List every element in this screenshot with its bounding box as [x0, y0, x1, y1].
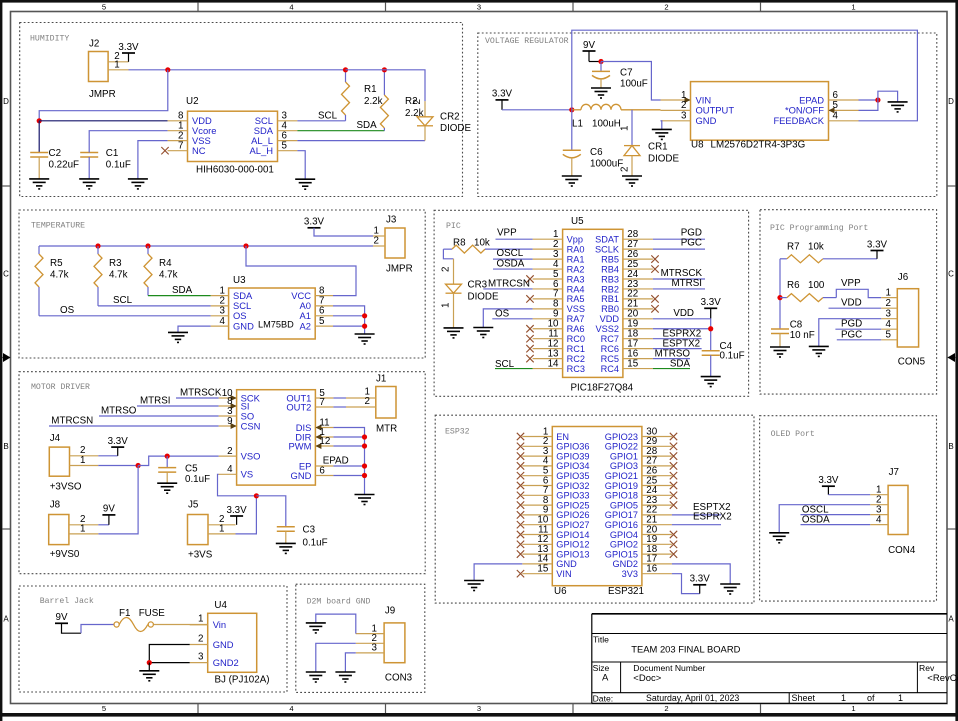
svg-text:D: D [948, 97, 954, 106]
wire U4 GND2 [149, 662, 189, 664]
wire junction to ground [878, 91, 898, 102]
svg-text:SCL: SCL [318, 111, 338, 122]
wire 3.3V to J3.1 [314, 228, 373, 236]
no-connect [670, 433, 677, 440]
svg-text:2: 2 [198, 633, 203, 644]
resistor R6 100 [780, 294, 836, 302]
wire J4.1 to J8.1 [98, 466, 138, 534]
svg-text:GPIO25: GPIO25 [556, 500, 589, 510]
svg-text:F1: F1 [119, 608, 130, 619]
svg-text:GPIO34: GPIO34 [556, 461, 589, 471]
ground under C5 [157, 483, 177, 493]
svg-text:3.3V: 3.3V [227, 505, 248, 516]
svg-text:3: 3 [198, 651, 204, 662]
svg-text:*ON/OFF: *ON/OFF [785, 105, 824, 116]
wire 3.3V rail temperature [39, 245, 373, 247]
svg-text:GPIO36: GPIO36 [556, 442, 589, 452]
svg-text:3: 3 [477, 2, 481, 11]
wire MTRSI [137, 405, 219, 407]
svg-text:GPIO26: GPIO26 [556, 510, 589, 520]
wire 9V stem barrel [62, 623, 82, 633]
svg-text:MTR: MTR [376, 424, 397, 435]
wire J4.2 [98, 455, 117, 457]
ground under U2 VSS [128, 179, 148, 189]
svg-text:2: 2 [664, 704, 668, 713]
junction [362, 463, 367, 468]
svg-text:MTRSI: MTRSI [140, 395, 170, 406]
wire MTRSO [99, 415, 219, 417]
connector J4 +3VSO [49, 447, 98, 476]
svg-text:3.3V: 3.3V [108, 436, 129, 447]
inductor L1 100uH [572, 104, 661, 109]
wire VPP to J6.1 [836, 289, 881, 297]
svg-text:4.7k: 4.7k [109, 270, 128, 281]
svg-text:C2: C2 [49, 148, 62, 159]
svg-text:PGC: PGC [681, 238, 702, 249]
wire VSS to ground [138, 141, 168, 179]
svg-text:R8: R8 [453, 237, 466, 248]
svg-text:3: 3 [477, 704, 481, 713]
wire 3.3V stem ESP32 [699, 585, 701, 594]
wire ESPRX2 [653, 338, 702, 340]
capacitor C1 0.1uF [80, 153, 98, 179]
connector J8 +9VS0 [49, 515, 99, 545]
svg-text:RB2: RB2 [601, 284, 619, 294]
svg-text:RC6: RC6 [601, 344, 619, 354]
svg-text:VDD: VDD [841, 298, 862, 309]
ground under C8 [770, 347, 790, 357]
svg-text:10 nF: 10 nF [790, 330, 815, 341]
wire J6.3 to ground [819, 319, 881, 347]
svg-text:VSS2: VSS2 [596, 324, 620, 334]
svg-text:GND: GND [556, 559, 577, 569]
wire 3.3V to J7.1 [828, 494, 870, 496]
svg-text:PIC18F27Q84: PIC18F27Q84 [571, 383, 634, 394]
svg-text:2: 2 [441, 267, 452, 272]
svg-text:TEAM 203 FINAL BOARD: TEAM 203 FINAL BOARD [631, 643, 740, 654]
ic U2 HIH6030-000-001 [168, 111, 298, 161]
wire ESPTX2 [672, 514, 721, 516]
svg-text:2: 2 [664, 2, 668, 11]
no-connect [670, 541, 677, 548]
wire 3.3V to U3 VCC [246, 246, 356, 296]
svg-text:A2: A2 [300, 320, 311, 331]
no-connect [670, 452, 677, 459]
svg-text:of: of [867, 693, 875, 703]
svg-text:J1: J1 [376, 374, 386, 385]
wire PGC [653, 248, 705, 250]
svg-text:HIH6030-000-001: HIH6030-000-001 [196, 165, 274, 176]
wire 3.3V stem J5 [236, 516, 238, 525]
svg-text:J2: J2 [89, 39, 99, 50]
svg-text:Date:: Date: [593, 693, 614, 703]
wire SCL [495, 368, 533, 370]
wire 3.3V stem J4 [117, 447, 119, 456]
wire VSS2 [653, 328, 711, 330]
no-connect [517, 462, 524, 469]
no-connect [670, 501, 677, 508]
wire R7 to C8 [779, 259, 781, 329]
junction [362, 434, 367, 439]
svg-text:6: 6 [833, 90, 839, 101]
ic motor driver [219, 390, 334, 485]
svg-text:5: 5 [102, 2, 106, 11]
wire A1 [333, 315, 365, 317]
svg-text:2: 2 [365, 396, 370, 407]
svg-text:15: 15 [627, 358, 638, 369]
svg-text:GPIO15: GPIO15 [605, 549, 638, 559]
no-connect [517, 452, 524, 459]
wire OSCL to J7.3 [801, 514, 871, 516]
ground under AL_H [295, 179, 315, 189]
wire U6 GND to ground [474, 564, 522, 581]
svg-text:CON3: CON3 [385, 673, 413, 684]
junction [145, 243, 150, 248]
no-connect [517, 433, 524, 440]
junction [708, 326, 713, 331]
svg-text:RA6: RA6 [567, 324, 585, 334]
svg-text:1: 1 [681, 90, 686, 101]
wire ESPTX2 [653, 348, 702, 350]
svg-text:CR1: CR1 [648, 142, 668, 153]
svg-text:MTRSO: MTRSO [101, 405, 137, 416]
ground under U5 VSS [473, 328, 493, 338]
frame column ticks bottom [197, 704, 199, 714]
svg-text:4: 4 [227, 464, 233, 475]
frame mid arrow left [3, 353, 11, 362]
junction [165, 454, 170, 459]
wire PGD [653, 238, 705, 240]
wire J5.1 up [236, 496, 257, 534]
ground under U6 GND [464, 581, 484, 591]
svg-text:VS: VS [241, 469, 254, 480]
svg-text:MTRCSN: MTRCSN [488, 278, 530, 289]
svg-text:J3: J3 [386, 215, 397, 226]
wire to ground barrel [148, 663, 150, 671]
ground under C3 [276, 543, 296, 553]
svg-text:3.3V: 3.3V [701, 297, 722, 308]
svg-text:0.1uF: 0.1uF [106, 160, 131, 171]
svg-text:3: 3 [372, 643, 378, 654]
svg-text:B: B [3, 442, 8, 451]
svg-text:3.3V: 3.3V [818, 475, 839, 486]
wire DIR [333, 436, 364, 438]
svg-text:RB4: RB4 [601, 264, 619, 274]
svg-text:VSS: VSS [567, 304, 585, 314]
svg-text:+3VS: +3VS [188, 549, 213, 560]
no-connect [526, 295, 533, 302]
ground under C6 [562, 176, 582, 186]
svg-text:OSDA: OSDA [802, 514, 830, 525]
wire OS [492, 318, 532, 320]
no-connect [670, 472, 677, 479]
svg-text:GPIO14: GPIO14 [556, 530, 589, 540]
svg-text:3: 3 [886, 309, 892, 320]
svg-text:RA3: RA3 [567, 274, 585, 284]
svg-text:Document Number: Document Number [633, 663, 705, 673]
svg-text:3.3V: 3.3V [492, 89, 513, 100]
wire VDD rail down to C4 [710, 318, 712, 350]
svg-text:7: 7 [319, 397, 324, 408]
svg-text:ESP321: ESP321 [608, 586, 644, 597]
svg-text:Vpp: Vpp [567, 235, 583, 245]
wire U8 GND to ground [661, 121, 662, 130]
svg-text:Vin: Vin [213, 619, 226, 630]
wire A0 down [333, 306, 365, 334]
wire OSDA [493, 268, 533, 270]
wire OSCL [493, 258, 533, 260]
wire to VSO [138, 456, 219, 465]
no-connect [517, 570, 524, 577]
wire MTRSCK [176, 397, 219, 399]
diode CR2 [417, 101, 433, 140]
wire J2.1 to R1 [129, 69, 346, 71]
svg-text:5: 5 [102, 704, 106, 713]
svg-text:RC3: RC3 [567, 364, 585, 374]
svg-text:2.2k: 2.2k [364, 96, 383, 107]
svg-text:Title: Title [593, 634, 609, 644]
svg-text:RA0: RA0 [567, 244, 585, 254]
wire OSDA to J7.4 [801, 524, 871, 526]
svg-text:1: 1 [898, 693, 903, 703]
wire 3.3V stem J7 [827, 486, 829, 495]
svg-text:GPIO17: GPIO17 [605, 510, 638, 520]
svg-text:6: 6 [319, 465, 325, 476]
junction [136, 463, 141, 468]
wire Vcore to C1 [89, 131, 167, 153]
ic U8 LM2576D2TR4-3P3G [661, 82, 859, 141]
no-connect [670, 531, 677, 538]
ground under U6 GND2 [720, 584, 740, 594]
wire EPAD to junction [859, 99, 878, 101]
svg-text:GPIO23: GPIO23 [605, 432, 638, 442]
svg-text:RB3: RB3 [601, 274, 619, 284]
svg-text:U3: U3 [233, 275, 246, 286]
no-connect [526, 275, 533, 282]
svg-text:10k: 10k [474, 237, 490, 248]
svg-text:GPIO22: GPIO22 [605, 442, 638, 452]
svg-text:GPIO1: GPIO1 [610, 451, 638, 461]
wire GND [333, 475, 364, 477]
connector J2 JMPR [89, 52, 129, 82]
no-connect [651, 305, 658, 312]
svg-text:GPIO32: GPIO32 [556, 481, 589, 491]
no-connect [517, 443, 524, 450]
no-connect [517, 531, 524, 538]
wire FEEDBACK loop to 3.3V node [572, 30, 918, 121]
no-connect [526, 325, 533, 332]
svg-text:Saturday, April 01, 2023: Saturday, April 01, 2023 [646, 693, 739, 703]
junction [875, 97, 880, 102]
svg-text:R7: R7 [787, 241, 800, 252]
no-connect [670, 492, 677, 499]
diode CR3 [446, 259, 462, 328]
svg-text:MOTOR DRIVER: MOTOR DRIVER [31, 383, 90, 392]
ground motor driver [355, 495, 375, 505]
wire VS down [218, 474, 257, 496]
junction [37, 118, 42, 123]
svg-text:4: 4 [289, 704, 293, 713]
svg-text:RC1: RC1 [567, 344, 585, 354]
svg-text:1: 1 [841, 693, 846, 703]
wire VDD to U2 pin 8 [39, 120, 167, 122]
svg-text:RA1: RA1 [567, 254, 585, 264]
wire MTRSCK [653, 278, 705, 280]
svg-text:NC: NC [192, 145, 206, 156]
frame row ticks left [2, 185, 10, 187]
svg-text:1: 1 [114, 59, 119, 70]
wire 9V to junction [589, 61, 601, 63]
svg-text:C7: C7 [620, 68, 633, 79]
wire VDD to J6.2 [829, 307, 882, 309]
svg-text:1: 1 [851, 704, 855, 713]
svg-text:ESPRX2: ESPRX2 [693, 512, 732, 523]
svg-text:Barrel Jack: Barrel Jack [40, 596, 94, 606]
svg-text:C6: C6 [590, 147, 603, 158]
wire to C2 [38, 121, 40, 153]
svg-text:100: 100 [808, 280, 825, 291]
power 3.3V [867, 239, 888, 250]
capacitor C3 0.1uF [277, 527, 295, 544]
power 3.3V [690, 574, 711, 585]
svg-text:MTRSCK: MTRSCK [180, 387, 222, 398]
no-connect [526, 345, 533, 352]
svg-text:<Doc>: <Doc> [633, 673, 661, 684]
svg-text:GND: GND [213, 639, 234, 650]
svg-text:SDA: SDA [172, 285, 193, 296]
wire J9.2 to ground [316, 643, 356, 672]
svg-text:J4: J4 [50, 433, 61, 444]
svg-text:PWM: PWM [288, 440, 311, 451]
ground under U3 GND [168, 332, 188, 342]
svg-text:<RevCo: <RevCo [927, 673, 958, 684]
svg-text:5: 5 [886, 330, 892, 341]
power 3.3V [304, 217, 325, 228]
svg-text:EPAD: EPAD [799, 94, 824, 105]
svg-text:GPIO33: GPIO33 [556, 491, 589, 501]
svg-text:1: 1 [886, 287, 891, 298]
svg-text:FEEDBACK: FEEDBACK [773, 115, 824, 126]
svg-text:C1: C1 [106, 148, 119, 159]
svg-text:DIODE: DIODE [440, 123, 471, 134]
svg-text:RC4: RC4 [601, 364, 619, 374]
wire U3 GND to ground [178, 326, 211, 332]
svg-text:OSDA: OSDA [497, 258, 525, 269]
connector J5 +3VS [188, 515, 236, 545]
wire J9.3 to ground [345, 653, 355, 672]
svg-text:A: A [602, 673, 609, 684]
svg-text:CON5: CON5 [898, 357, 926, 368]
svg-text:GND2: GND2 [612, 559, 638, 569]
junction [147, 660, 152, 665]
wire R8 to CR3 [443, 249, 453, 259]
svg-text:J9: J9 [385, 605, 395, 616]
svg-text:D2M board GND: D2M board GND [307, 596, 371, 606]
svg-text:SCL: SCL [113, 295, 133, 306]
svg-text:Sheet: Sheet [792, 693, 816, 703]
svg-text:OUT2: OUT2 [286, 401, 311, 412]
svg-text:2: 2 [681, 100, 686, 111]
resistor R7 10k [780, 255, 877, 263]
connector J3 JMPR [373, 228, 405, 258]
svg-text:4: 4 [886, 319, 892, 330]
wire ESPRX2 [672, 524, 721, 526]
svg-text:16: 16 [646, 564, 657, 575]
svg-text:R4: R4 [159, 258, 172, 269]
svg-text:RB1: RB1 [601, 294, 619, 304]
junction [569, 107, 574, 112]
svg-text:Rev: Rev [919, 663, 935, 673]
svg-text:GPIO13: GPIO13 [556, 549, 589, 559]
wire MTRCSN [49, 425, 219, 427]
svg-text:GPIO2: GPIO2 [610, 540, 638, 550]
svg-text:L1: L1 [572, 119, 583, 130]
power 3.3V [701, 297, 722, 318]
wire J7.2 to ground [779, 505, 870, 533]
svg-text:MTRSI: MTRSI [672, 278, 702, 289]
svg-text:1: 1 [80, 523, 85, 534]
ground under C2 [29, 179, 49, 189]
svg-text:12: 12 [319, 436, 330, 447]
svg-text:100uF: 100uF [620, 79, 648, 90]
svg-text:3.3V: 3.3V [867, 239, 888, 250]
outer black edge strips [0, 0, 958, 3]
svg-text:C8: C8 [790, 319, 803, 330]
no-connect [651, 295, 658, 302]
svg-text:GPIO16: GPIO16 [605, 520, 638, 530]
wire VS to C3 [256, 496, 285, 527]
svg-text:0.1uF: 0.1uF [303, 538, 328, 549]
ic U6 ESP321 [522, 427, 672, 586]
svg-text:C: C [948, 270, 954, 279]
wire SDA to R4 [148, 295, 211, 297]
svg-text:FUSE: FUSE [139, 608, 166, 619]
junction [243, 243, 248, 248]
svg-text:R6: R6 [787, 280, 800, 291]
svg-text:RC2: RC2 [567, 354, 585, 364]
wire 9V to fuse [81, 625, 114, 634]
wire PGC to J6.5 [837, 339, 881, 341]
svg-text:4.7k: 4.7k [50, 270, 69, 281]
svg-text:3.3V: 3.3V [118, 42, 139, 53]
wire PGD to J6.4 [835, 328, 881, 330]
svg-text:HUMIDITY: HUMIDITY [30, 35, 69, 44]
wire OUT2 to J1.2 [333, 406, 346, 408]
no-connect [517, 550, 524, 557]
no-connect [526, 355, 533, 362]
section box Barrel Jack [19, 586, 287, 692]
wire J9.1 to ground [316, 614, 356, 634]
svg-text:2: 2 [620, 167, 631, 172]
svg-text:5: 5 [282, 141, 288, 152]
svg-text:A: A [948, 615, 954, 624]
resistor R5 4.7k [35, 246, 43, 316]
ground under U8 GND [652, 129, 672, 139]
svg-text:7: 7 [178, 141, 183, 152]
connector J9 CON3 [356, 623, 405, 663]
no-connect [161, 147, 168, 154]
svg-text:10k: 10k [808, 241, 824, 252]
resistor R2 2.2k [380, 70, 388, 131]
svg-text:9V: 9V [56, 612, 68, 623]
wire J4.1 [98, 465, 138, 467]
power 3.3V [818, 475, 839, 486]
junction [777, 295, 782, 300]
junction [362, 313, 367, 318]
power 3.3V [492, 89, 513, 110]
svg-text:GPIO35: GPIO35 [556, 471, 589, 481]
svg-text:0.22uF: 0.22uF [49, 160, 80, 171]
